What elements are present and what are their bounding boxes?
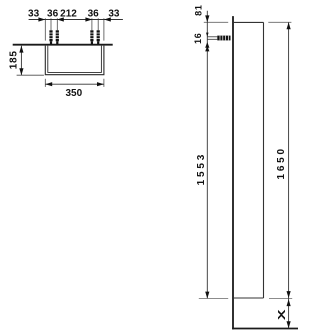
svg-text:350: 350 — [65, 88, 82, 99]
cabinet right edge (side view) — [263, 22, 265, 298]
cabinet bottom (side view) — [234, 297, 264, 299]
arrow tip-up 1650 — [287, 22, 291, 29]
extension line 81 top (cabinet top level, left of wall) — [204, 21, 228, 23]
cabinet body outer outline (top view) — [45, 46, 104, 75]
svg-text:33: 33 — [108, 9, 120, 20]
arrow tip-left at screw2 — [57, 17, 64, 21]
right dimension line (1650/X) — [288, 22, 290, 328]
arrow tip-down 185 — [19, 68, 23, 75]
left dimension line (81/16/1553) — [206, 11, 208, 299]
arrow tip-down 16 (squeezed) — [206, 33, 209, 37]
floor line (side view) — [232, 328, 298, 330]
svg-text:185: 185 — [8, 50, 19, 69]
svg-text:36: 36 — [88, 9, 100, 20]
extension line box right edge (top chain) — [103, 18, 105, 40]
arrow tip-down 81 — [205, 15, 209, 22]
svg-text:1553: 1553 — [196, 152, 207, 185]
screw shaft lines (side view) — [207, 36, 217, 38]
screw threaded bar (side view) — [217, 36, 230, 41]
arrow tip-left at box right — [104, 17, 111, 21]
svg-text:X: X — [276, 309, 287, 320]
extension line 350 right — [103, 79, 105, 87]
cabinet body inner outline (top view) — [48, 46, 102, 73]
extension line 350 left — [44, 79, 46, 87]
arrow tip-up 16 bottom — [205, 42, 209, 48]
extension line 1553 bottom (cabinet bottom level, left of wall) — [199, 298, 228, 300]
extension line 1650 top — [268, 21, 291, 23]
svg-text:1650: 1650 — [276, 146, 287, 179]
extension line 1650 bottom — [269, 298, 292, 300]
arrow tip-down 1650 — [287, 291, 291, 298]
arrow tip-down 1553 bottom — [205, 292, 209, 299]
arrow tip-up X — [287, 299, 291, 306]
screw S4 (top view) — [95, 18, 101, 44]
svg-text:16: 16 — [193, 32, 203, 44]
arrow tip-up 185 — [19, 46, 23, 53]
screw S3 (top view) — [89, 18, 95, 44]
svg-text:33: 33 — [28, 9, 40, 20]
arrow tip-right at screw3 — [85, 17, 92, 21]
wall line (side view) — [232, 16, 234, 329]
screw S1 (top view) — [48, 18, 54, 44]
extension line box left edge (top chain) — [44, 18, 46, 40]
arrow tip-up 1553 top (stacked) — [205, 46, 209, 52]
screw S2 (top view) — [54, 18, 60, 44]
top dimension chain line — [29, 19, 123, 21]
dimension 350 line — [45, 83, 104, 85]
arrow tip-left 350 — [45, 82, 52, 86]
dimension 185 line — [20, 46, 22, 75]
arrow tip-down X — [287, 321, 291, 328]
arrow tip-right at box left — [38, 17, 45, 21]
svg-text:81: 81 — [194, 4, 204, 16]
extension line 185 bottom — [17, 74, 44, 76]
svg-text:212: 212 — [60, 9, 77, 20]
cabinet top (side view) — [234, 21, 264, 23]
arrow tip-right 350 — [97, 82, 104, 86]
svg-text:36: 36 — [47, 9, 59, 20]
wall line (top view) — [13, 44, 113, 46]
